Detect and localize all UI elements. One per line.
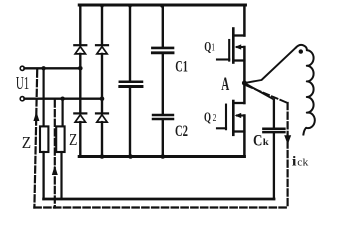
svg-text:C: C [253, 132, 262, 149]
svg-text:Q: Q [204, 110, 211, 125]
diode D2 [96, 45, 108, 54]
terminal: input lower [20, 97, 24, 101]
wire: Ck bottom lead to return line [273, 133, 275, 199]
dashed current loop: middle vertical [54, 101, 56, 208]
wire: node A to transformer (upper fan line) [244, 48, 296, 84]
arrow up on left dashed line [33, 112, 39, 122]
svg-text:C2: C2 [175, 123, 188, 140]
dashed current loop: bottom horizontal [34, 206, 287, 208]
junction dot bottom bus / C2 [161, 154, 166, 159]
dashed current loop: right vertical (ick) [287, 103, 289, 208]
wire: upper input line [24, 67, 80, 69]
wire: filter cap top lead [129, 5, 131, 81]
junction dot bottom bus / column 2 [100, 154, 105, 159]
wire: Q1 source / node A column [243, 47, 246, 103]
svg-text:A: A [221, 75, 229, 95]
wire: bridge column 1 lower [79, 122, 81, 156]
diode D4 [96, 113, 108, 122]
svg-text:i: i [292, 154, 297, 169]
wire: C1-C2 middle lead [162, 54, 164, 114]
wire: lower input line [24, 97, 102, 99]
junction dot wire2 / bridge column 2 [100, 96, 105, 101]
transformer polarity dot [299, 49, 303, 53]
wire: Z2 bottom lead [60, 152, 62, 199]
node A junction dot [242, 81, 247, 86]
wire: bridge column 1 upper [79, 5, 81, 44]
wire: Z1 top lead [42, 68, 44, 126]
wire: C2 bottom lead [162, 120, 164, 156]
junction dot bottom bus / filter cap [128, 154, 133, 159]
wire: node A to Ck (middle fan line) [244, 83, 274, 100]
svg-text:2: 2 [213, 113, 217, 124]
svg-text:U1: U1 [16, 73, 29, 93]
arrow down on ick dashed line [284, 135, 291, 144]
capacitor Ck [263, 129, 284, 132]
transformer winding (coil) [296, 45, 315, 135]
wire: Z2 top lead [61, 99, 63, 127]
wire: Q1 drain column from top bus [243, 5, 246, 36]
junction dot wire1 / Z1 [41, 66, 45, 70]
svg-text:Z: Z [22, 133, 31, 152]
svg-text:1: 1 [211, 43, 215, 54]
transistor Q1 (N-MOSFET) [217, 29, 244, 63]
wire: bridge column 2 upper [101, 5, 103, 44]
capacitor C2 [153, 115, 173, 119]
node: bottom DC bus [79, 155, 244, 158]
svg-text:k: k [263, 137, 269, 147]
diode D1 [74, 45, 86, 54]
transistor Q2 (N-MOSFET) [217, 101, 244, 135]
arrow up on middle dashed line [52, 166, 58, 176]
junction dot top bus / column 2 [100, 4, 104, 8]
svg-text:C1: C1 [175, 58, 188, 75]
junction dot top bus / filter cap [128, 4, 132, 8]
terminal: input upper [20, 66, 24, 70]
wire: Z1 bottom lead [42, 152, 44, 199]
svg-text:Z: Z [69, 130, 77, 149]
impedance Z1 (box) [40, 126, 48, 152]
wire: filter cap bottom lead [129, 88, 131, 157]
dashed line: node A diagonal to ick branch [247, 86, 288, 104]
capacitor C1 [152, 48, 173, 53]
junction dot wire1 / bridge column 1 [78, 66, 83, 71]
wire: C1 top lead [162, 5, 164, 47]
diode D3 [74, 113, 86, 122]
svg-text:ck: ck [297, 158, 308, 169]
impedance Z2 (box) [56, 126, 64, 152]
wire: Q2 source column to bottom bus [243, 116, 246, 157]
wire: return line to Ck [44, 198, 274, 201]
junction dot top bus / C1 [160, 4, 164, 8]
svg-text:Q: Q [204, 39, 211, 54]
wire: bridge column 2 middle [101, 54, 103, 113]
wire: Ck top lead [273, 100, 275, 128]
capacitor (bulk filter, unlabeled) [120, 82, 142, 87]
wire: bridge column 1 middle [79, 54, 81, 113]
junction dot wire2 / Z2 [60, 97, 64, 101]
wire: bridge column 2 lower [101, 122, 103, 156]
node: top DC bus [79, 4, 245, 7]
dashed current loop: left vertical [34, 71, 37, 208]
